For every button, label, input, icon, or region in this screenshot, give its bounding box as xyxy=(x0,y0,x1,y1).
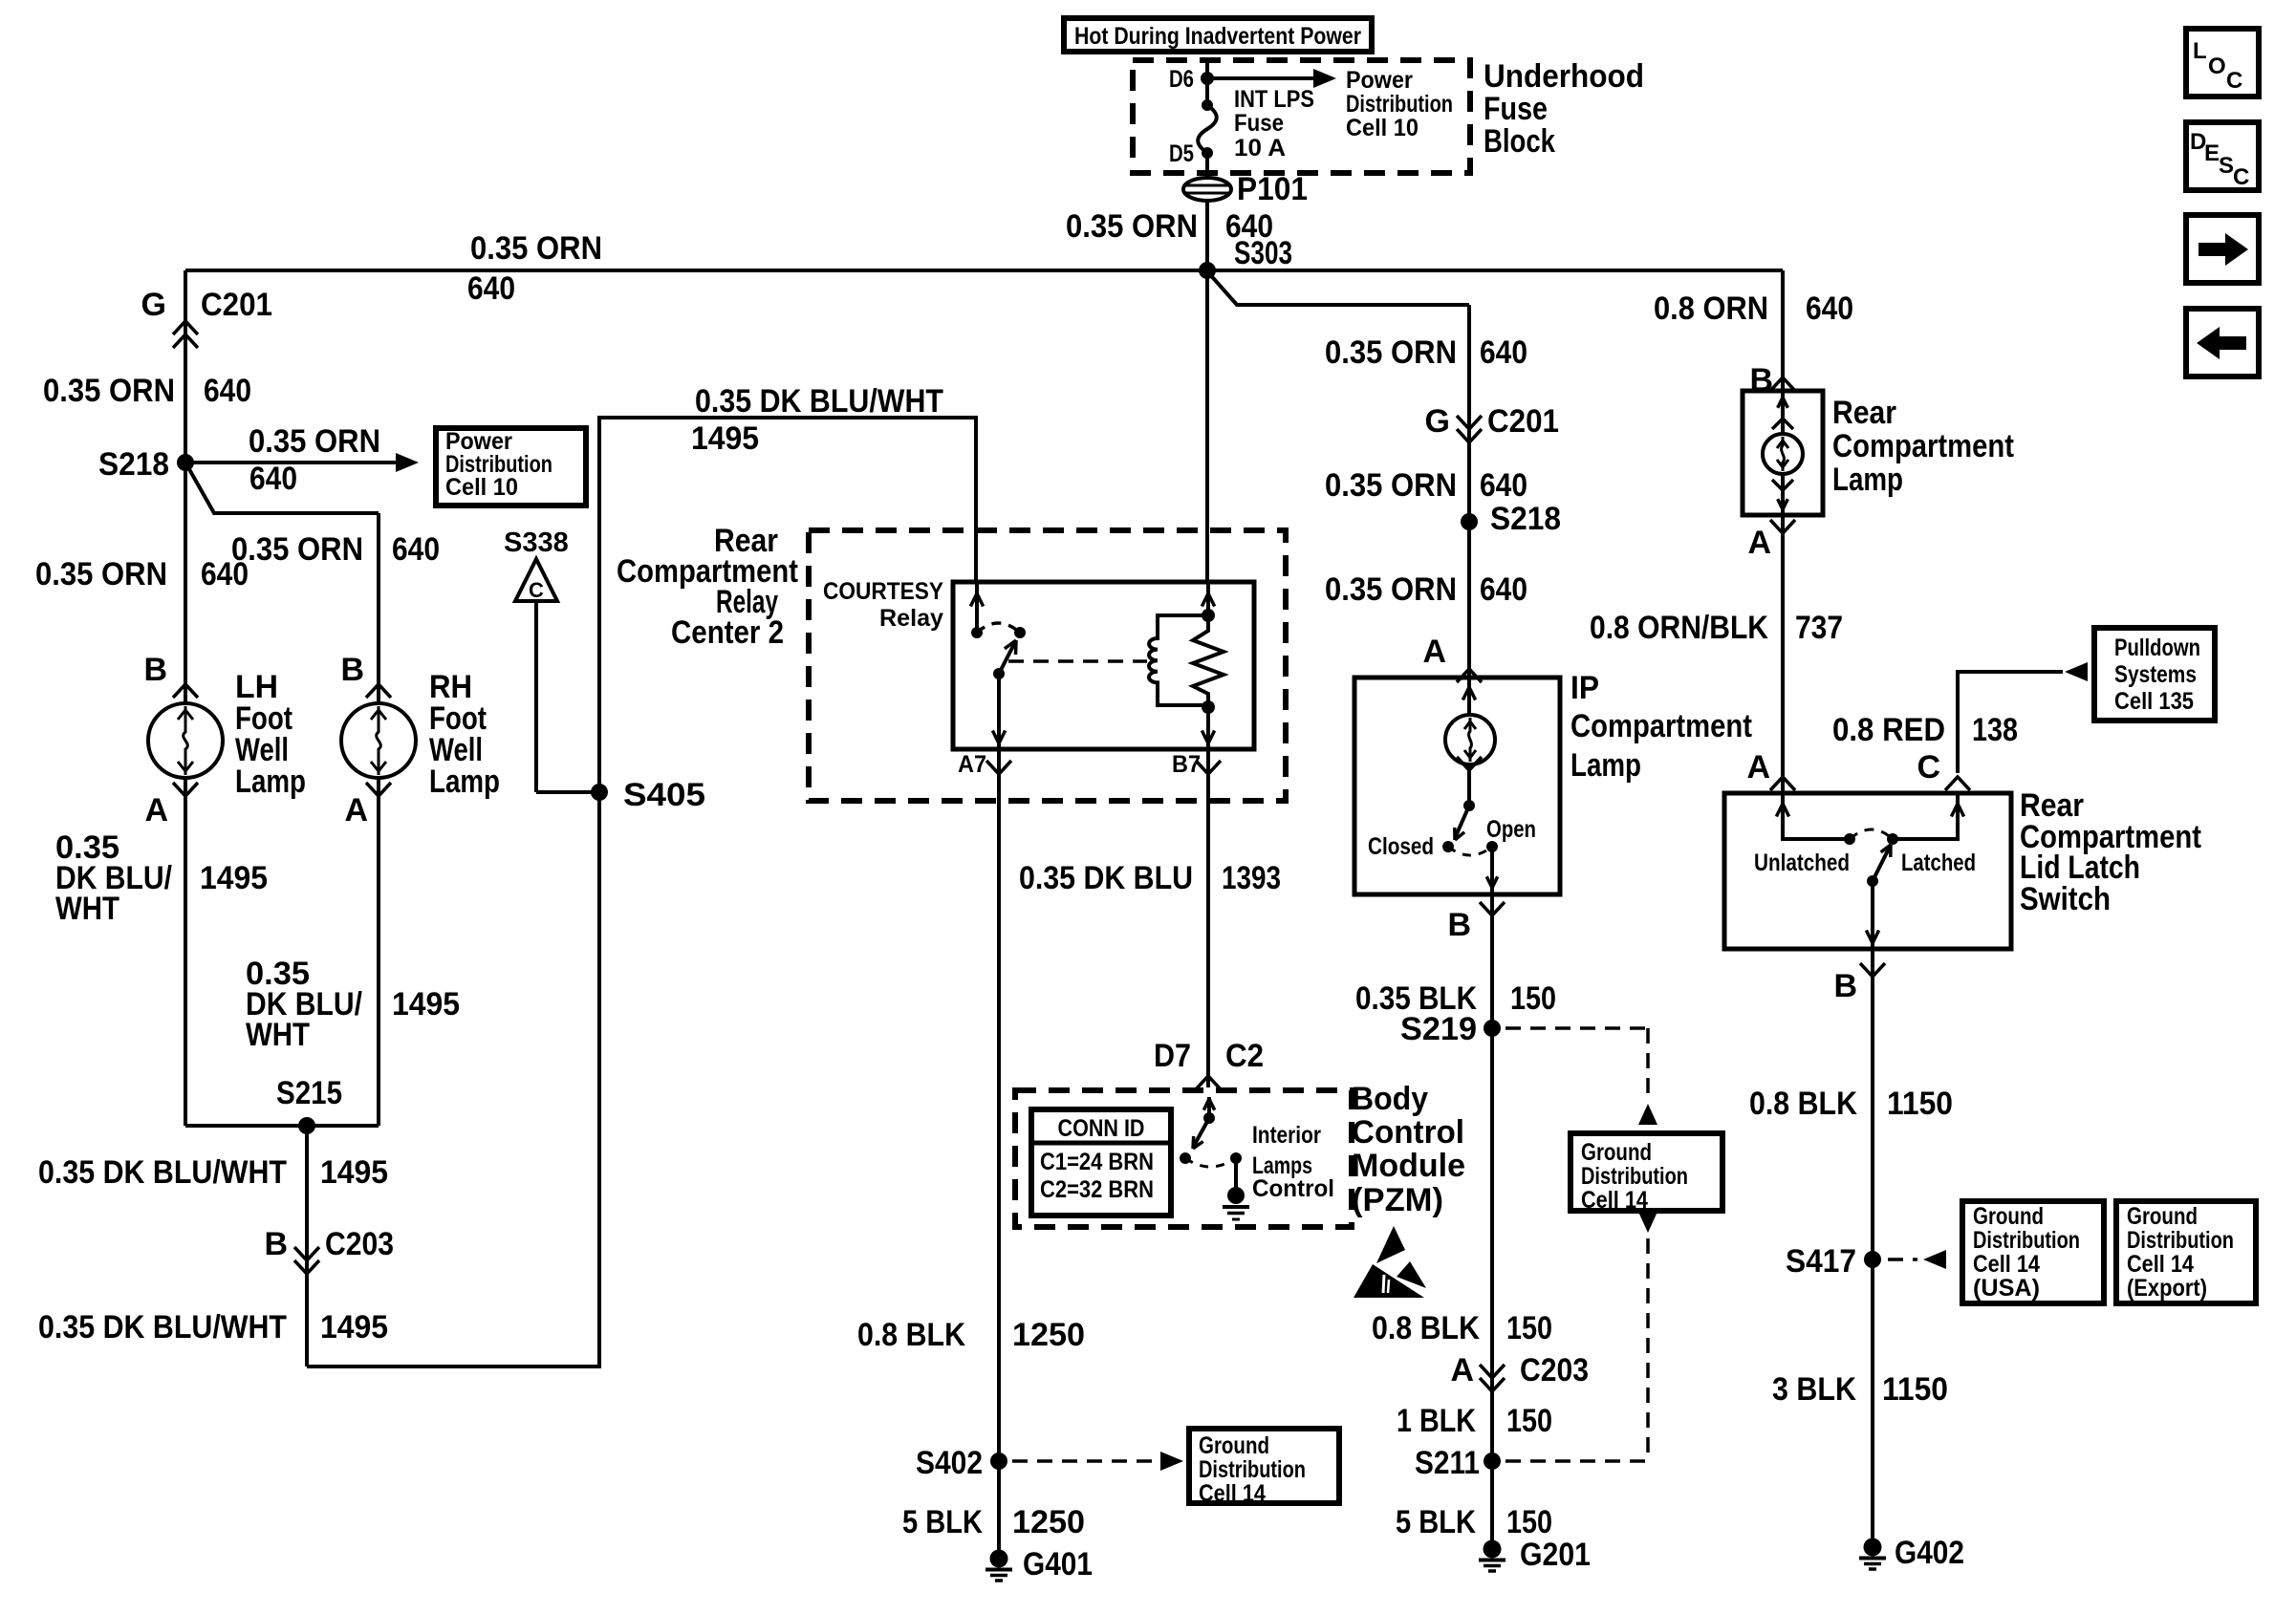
svg-text:640: 640 xyxy=(204,373,251,409)
svg-text:C2: C2 xyxy=(1225,1038,1264,1074)
svg-text:Distribution: Distribution xyxy=(1346,91,1453,118)
svg-text:INT LPS: INT LPS xyxy=(1234,86,1314,113)
svg-text:Distribution: Distribution xyxy=(2127,1227,2234,1254)
svg-text:0.35 DK BLU: 0.35 DK BLU xyxy=(1019,860,1193,896)
svg-text:1250: 1250 xyxy=(1012,1317,1085,1353)
svg-text:Cell 14: Cell 14 xyxy=(2127,1251,2194,1278)
svg-text:0.8 BLK: 0.8 BLK xyxy=(1372,1310,1480,1346)
svg-text:Compartment: Compartment xyxy=(1570,708,1752,744)
svg-text:A: A xyxy=(1746,749,1770,785)
svg-text:S303: S303 xyxy=(1234,235,1292,271)
svg-text:C203: C203 xyxy=(1520,1352,1589,1388)
svg-text:C: C xyxy=(529,578,544,602)
svg-text:Cell 10: Cell 10 xyxy=(1346,115,1419,141)
svg-text:0.8 ORN: 0.8 ORN xyxy=(1654,291,1768,327)
svg-text:Distribution: Distribution xyxy=(1199,1456,1306,1483)
svg-text:Cell 14: Cell 14 xyxy=(1199,1480,1266,1507)
svg-text:Pulldown: Pulldown xyxy=(2114,635,2200,661)
svg-text:1495: 1495 xyxy=(691,420,759,457)
svg-text:B7: B7 xyxy=(1172,751,1201,778)
svg-text:S417: S417 xyxy=(1786,1243,1856,1280)
svg-text:Control: Control xyxy=(1252,1175,1334,1202)
svg-text:0.35 ORN: 0.35 ORN xyxy=(470,230,602,267)
svg-text:Ground: Ground xyxy=(2127,1203,2198,1230)
svg-text:Ground: Ground xyxy=(1199,1432,1269,1459)
svg-text:CONN ID: CONN ID xyxy=(1058,1115,1145,1142)
svg-text:S: S xyxy=(2219,153,2234,179)
svg-text:1393: 1393 xyxy=(1222,860,1281,896)
svg-text:A: A xyxy=(1422,634,1446,670)
svg-text:Closed: Closed xyxy=(1368,833,1434,860)
svg-text:640: 640 xyxy=(392,531,440,568)
svg-text:10 A: 10 A xyxy=(1234,135,1286,161)
svg-text:(Export): (Export) xyxy=(2127,1275,2207,1302)
svg-text:640: 640 xyxy=(1480,467,1527,504)
svg-text:S402: S402 xyxy=(916,1445,983,1481)
svg-text:0.35 ORN: 0.35 ORN xyxy=(43,373,175,409)
svg-text:1150: 1150 xyxy=(1887,1086,1953,1122)
svg-text:Compartment: Compartment xyxy=(1832,428,2014,464)
svg-text:5 BLK: 5 BLK xyxy=(1396,1504,1476,1540)
svg-text:A: A xyxy=(1450,1352,1474,1388)
svg-text:Unlatched: Unlatched xyxy=(1754,850,1850,876)
svg-text:1 BLK: 1 BLK xyxy=(1397,1403,1476,1439)
svg-text:C201: C201 xyxy=(1487,403,1559,440)
svg-text:G401: G401 xyxy=(1023,1546,1093,1582)
svg-text:A: A xyxy=(144,792,168,829)
svg-text:1250: 1250 xyxy=(1012,1504,1085,1540)
svg-text:D6: D6 xyxy=(1169,66,1194,93)
svg-text:138: 138 xyxy=(1972,712,2018,748)
svg-text:Fuse: Fuse xyxy=(1484,91,1548,127)
svg-text:O: O xyxy=(2208,54,2226,79)
svg-text:S215: S215 xyxy=(276,1075,342,1111)
svg-text:Block: Block xyxy=(1484,123,1555,160)
svg-text:G: G xyxy=(141,287,166,323)
svg-text:737: 737 xyxy=(1795,610,1843,646)
svg-text:A: A xyxy=(344,792,368,829)
svg-text:S338: S338 xyxy=(504,527,569,558)
svg-text:D5: D5 xyxy=(1169,140,1194,167)
svg-text:S218: S218 xyxy=(1490,501,1561,537)
svg-text:Cell 135: Cell 135 xyxy=(2114,688,2194,715)
svg-text:(USA): (USA) xyxy=(1973,1275,2040,1302)
svg-text:L: L xyxy=(2193,38,2207,64)
svg-text:Lamp: Lamp xyxy=(1570,747,1641,784)
svg-text:0.35 ORN: 0.35 ORN xyxy=(1325,334,1457,371)
svg-text:640: 640 xyxy=(1806,291,1853,327)
svg-text:150: 150 xyxy=(1506,1403,1552,1439)
svg-text:1495: 1495 xyxy=(392,986,460,1022)
svg-text:C2=32 BRN: C2=32 BRN xyxy=(1040,1176,1154,1203)
svg-text:Cell 14: Cell 14 xyxy=(1581,1187,1648,1214)
svg-text:150: 150 xyxy=(1506,1504,1552,1540)
svg-text:Rear: Rear xyxy=(1832,395,1896,431)
svg-text:Cell 14: Cell 14 xyxy=(1973,1251,2040,1278)
svg-text:Underhood: Underhood xyxy=(1484,58,1644,95)
svg-text:640: 640 xyxy=(467,270,515,307)
svg-text:Open: Open xyxy=(1486,816,1536,843)
svg-text:C: C xyxy=(1917,749,1940,785)
svg-text:1495: 1495 xyxy=(320,1154,388,1191)
svg-text:640: 640 xyxy=(1480,571,1527,608)
svg-text:Systems: Systems xyxy=(2114,661,2197,688)
svg-text:B: B xyxy=(1833,968,1857,1004)
svg-text:5 BLK: 5 BLK xyxy=(902,1504,983,1540)
svg-text:C: C xyxy=(2233,164,2249,190)
svg-text:Lamp: Lamp xyxy=(429,764,500,800)
svg-text:0.35 ORN: 0.35 ORN xyxy=(1325,467,1457,504)
svg-text:B: B xyxy=(1447,907,1471,943)
svg-text:B: B xyxy=(143,652,167,688)
svg-text:G201: G201 xyxy=(1520,1537,1591,1573)
svg-text:0.35 ORN: 0.35 ORN xyxy=(35,556,167,592)
svg-text:C201: C201 xyxy=(201,287,272,323)
svg-text:1495: 1495 xyxy=(320,1309,388,1345)
svg-text:Fuse: Fuse xyxy=(1234,110,1284,137)
svg-text:Center 2: Center 2 xyxy=(671,614,784,651)
svg-text:0.35 DK BLU/WHT: 0.35 DK BLU/WHT xyxy=(695,383,943,420)
svg-text:Module: Module xyxy=(1352,1148,1465,1184)
svg-text:0.35 ORN: 0.35 ORN xyxy=(1066,208,1198,245)
svg-text:S405: S405 xyxy=(623,777,705,813)
svg-text:G402: G402 xyxy=(1895,1535,1964,1571)
svg-text:D7: D7 xyxy=(1154,1038,1191,1074)
svg-text:Ground: Ground xyxy=(1581,1139,1652,1166)
svg-text:0.35 ORN: 0.35 ORN xyxy=(231,531,363,568)
svg-text:0.8 BLK: 0.8 BLK xyxy=(857,1317,965,1353)
svg-text:Distribution: Distribution xyxy=(1973,1227,2080,1254)
svg-text:Body: Body xyxy=(1352,1081,1428,1117)
svg-text:0.35 DK BLU/WHT: 0.35 DK BLU/WHT xyxy=(38,1309,287,1345)
svg-text:Cell 10: Cell 10 xyxy=(445,474,518,501)
svg-text:Ground: Ground xyxy=(1973,1203,2044,1230)
svg-text:COURTESY: COURTESY xyxy=(823,578,943,605)
svg-text:Interior: Interior xyxy=(1252,1122,1321,1149)
svg-text:Latched: Latched xyxy=(1901,850,1976,876)
svg-text:WHT: WHT xyxy=(246,1017,310,1053)
svg-text:S219: S219 xyxy=(1400,1011,1477,1047)
svg-text:G: G xyxy=(1425,403,1450,440)
svg-text:640: 640 xyxy=(1480,334,1527,371)
svg-text:C203: C203 xyxy=(325,1226,394,1262)
svg-text:0.35 ORN: 0.35 ORN xyxy=(1325,571,1457,608)
svg-text:C1=24 BRN: C1=24 BRN xyxy=(1040,1149,1154,1175)
svg-text:P101: P101 xyxy=(1237,171,1308,207)
svg-text:WHT: WHT xyxy=(55,891,119,927)
svg-text:E: E xyxy=(2204,140,2220,166)
svg-text:S218: S218 xyxy=(98,446,169,483)
svg-text:0.35 ORN: 0.35 ORN xyxy=(249,423,380,460)
svg-text:Hot During Inadvertent Power: Hot During Inadvertent Power xyxy=(1074,23,1361,50)
svg-text:Distribution: Distribution xyxy=(1581,1163,1688,1190)
svg-text:Lamp: Lamp xyxy=(235,764,306,800)
svg-text:1495: 1495 xyxy=(200,860,268,896)
svg-text:1150: 1150 xyxy=(1882,1371,1948,1408)
svg-text:0.8 BLK: 0.8 BLK xyxy=(1749,1086,1857,1122)
svg-text:S211: S211 xyxy=(1415,1445,1480,1481)
svg-text:Relay: Relay xyxy=(879,605,943,632)
svg-text:3 BLK: 3 BLK xyxy=(1772,1371,1856,1408)
svg-text:0.35 DK BLU/WHT: 0.35 DK BLU/WHT xyxy=(38,1154,287,1191)
svg-text:Control: Control xyxy=(1352,1114,1464,1151)
svg-text:B: B xyxy=(340,652,364,688)
svg-text:C: C xyxy=(2226,68,2242,94)
svg-text:Lamp: Lamp xyxy=(1832,462,1903,498)
svg-text:640: 640 xyxy=(249,461,297,497)
svg-text:B: B xyxy=(264,1226,288,1262)
svg-text:Power: Power xyxy=(1346,67,1413,94)
svg-text:A: A xyxy=(1747,525,1771,561)
svg-text:(PZM): (PZM) xyxy=(1352,1182,1443,1218)
svg-text:IP: IP xyxy=(1570,670,1599,706)
svg-text:0.8 RED: 0.8 RED xyxy=(1832,712,1945,748)
svg-text:0.8 ORN/BLK: 0.8 ORN/BLK xyxy=(1590,610,1768,646)
svg-text:150: 150 xyxy=(1510,980,1556,1017)
svg-text:Switch: Switch xyxy=(2020,881,2111,917)
svg-text:150: 150 xyxy=(1506,1310,1552,1346)
svg-text:A7: A7 xyxy=(958,751,986,778)
